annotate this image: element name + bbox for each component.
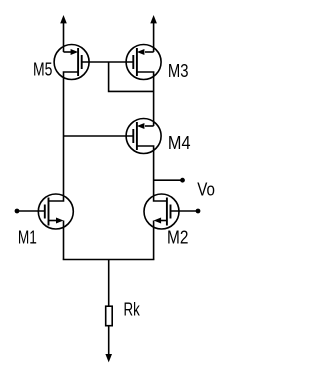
svg-text:Vo: Vo (197, 180, 215, 200)
node M2 gate input terminal (171, 209, 201, 214)
wire M4 gate to left rail (64, 135, 134, 137)
node Vo terminal dot (180, 178, 185, 183)
transistor M5 (54, 45, 89, 80)
wire M1 source to bottom bus (63, 221, 65, 260)
node M1 gate input terminal (15, 209, 45, 214)
svg-text:M3: M3 (168, 61, 189, 81)
wire M2 source to bottom bus (153, 221, 155, 260)
wire gate line M5-M3 (82, 61, 134, 63)
wire bottom bus (63, 259, 155, 261)
ground arrow (current source tail) (105, 354, 112, 362)
transistor M2 (144, 194, 179, 229)
wire M5 source to M1 drain (49, 72, 79, 201)
resistor Rk (106, 306, 113, 326)
svg-text:M4: M4 (168, 133, 191, 153)
svg-text:Rk: Rk (124, 300, 141, 320)
svg-text:M1: M1 (18, 228, 37, 248)
wire M4 source to M2 drain (137, 146, 167, 201)
transistor M4 (126, 119, 161, 154)
transistor M1 (38, 194, 73, 229)
wire gate feedback loop to M3 source node (109, 62, 154, 91)
power rail arrow VDD right (150, 15, 157, 52)
wire Vo branch (154, 179, 183, 181)
svg-text:M2: M2 (167, 228, 188, 248)
svg-text:M5: M5 (33, 60, 52, 80)
transistor M3 (126, 45, 161, 80)
wire bus to resistor (108, 260, 110, 307)
wire resistor to ground arrow (108, 326, 110, 356)
wire M3 source to M4 drain (137, 72, 154, 126)
power rail arrow VDD left (60, 15, 67, 52)
